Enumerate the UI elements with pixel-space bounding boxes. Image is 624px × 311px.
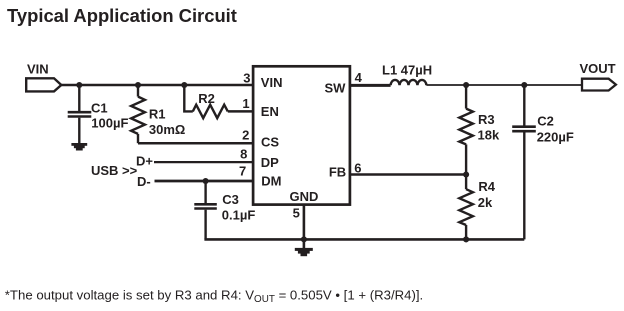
svg-text:30mΩ: 30mΩ [149, 122, 185, 137]
wire L1 to VOUT [426, 84, 582, 86]
svg-text:R2: R2 [198, 91, 215, 106]
wire D- to DM pin 7 [155, 180, 254, 183]
ground (bus) [295, 248, 313, 256]
wire FB pin 6 to divider [350, 173, 466, 176]
svg-text:8: 8 [240, 146, 247, 161]
svg-text:GND: GND [289, 189, 318, 204]
resistor R1 [131, 85, 145, 143]
junction at R2 tap [181, 82, 187, 88]
svg-text:0.1µF: 0.1µF [222, 207, 256, 222]
resistor R4 [459, 175, 473, 240]
resistor R3 [459, 85, 473, 175]
junction at C1 tap [76, 82, 82, 88]
capacitor C1 [68, 85, 92, 143]
junction at C2 tap [521, 82, 527, 88]
svg-text:2k: 2k [478, 195, 493, 210]
svg-text:USB >>: USB >> [91, 163, 138, 178]
wire junction down to R2 [184, 85, 193, 111]
svg-text:R4: R4 [478, 179, 495, 194]
svg-text:18k: 18k [478, 128, 500, 143]
bottom ground bus wire [204, 238, 524, 241]
wire D+ to DP pin 8 [154, 161, 253, 163]
svg-text:DM: DM [261, 173, 281, 188]
svg-text:3: 3 [243, 70, 250, 85]
ground (C1) [71, 143, 87, 151]
capacitor C2 [512, 85, 536, 239]
svg-text:2: 2 [242, 127, 249, 142]
junction at R1 tap [135, 82, 141, 88]
junction at C3 tap [203, 178, 209, 184]
svg-text:D-: D- [137, 174, 151, 189]
junction at ground bus [301, 236, 307, 242]
svg-text:L1 47µH: L1 47µH [382, 62, 432, 77]
junction at FB divider [463, 171, 469, 177]
wire R1 bottom to CS pin 2 [138, 142, 253, 145]
svg-text:D+: D+ [136, 153, 153, 168]
svg-text:R1: R1 [149, 106, 166, 121]
svg-text:4: 4 [355, 70, 363, 85]
svg-text:1: 1 [242, 96, 249, 111]
capacitor C3 [194, 181, 217, 239]
svg-text:DP: DP [261, 155, 279, 170]
svg-text:FB: FB [329, 164, 346, 179]
node VOUT connector [582, 79, 616, 91]
svg-text:R3: R3 [478, 112, 495, 127]
junction at R4 bottom [463, 236, 469, 242]
svg-text:SW: SW [324, 80, 346, 95]
wire SW pin 4 to L1 [350, 84, 391, 87]
junction at R3 tap [463, 82, 469, 88]
svg-text:*The output voltage is set by: *The output voltage is set by R3 and R4:… [5, 287, 423, 305]
wire GND pin 5 stub [303, 205, 306, 248]
svg-text:6: 6 [354, 160, 361, 175]
svg-text:CS: CS [261, 135, 279, 150]
svg-text:100µF: 100µF [91, 115, 128, 130]
svg-text:7: 7 [239, 163, 246, 178]
svg-text:VIN: VIN [27, 62, 49, 77]
svg-text:220µF: 220µF [537, 130, 574, 145]
wire VIN to IC pin 3 [61, 84, 253, 87]
svg-text:Typical Application Circuit: Typical Application Circuit [7, 5, 237, 26]
node VIN connector [26, 78, 61, 91]
resistor R2 [193, 105, 228, 118]
svg-text:EN: EN [261, 104, 279, 119]
wire R2 to EN pin 1 [228, 110, 253, 113]
svg-text:C3: C3 [222, 192, 239, 207]
inductor L1 [391, 80, 427, 85]
svg-text:5: 5 [293, 205, 300, 220]
svg-text:VOUT: VOUT [580, 61, 616, 76]
svg-text:VIN: VIN [261, 75, 283, 90]
IC U1 box [253, 66, 350, 204]
svg-text:C2: C2 [537, 114, 554, 129]
svg-text:C1: C1 [91, 100, 108, 115]
